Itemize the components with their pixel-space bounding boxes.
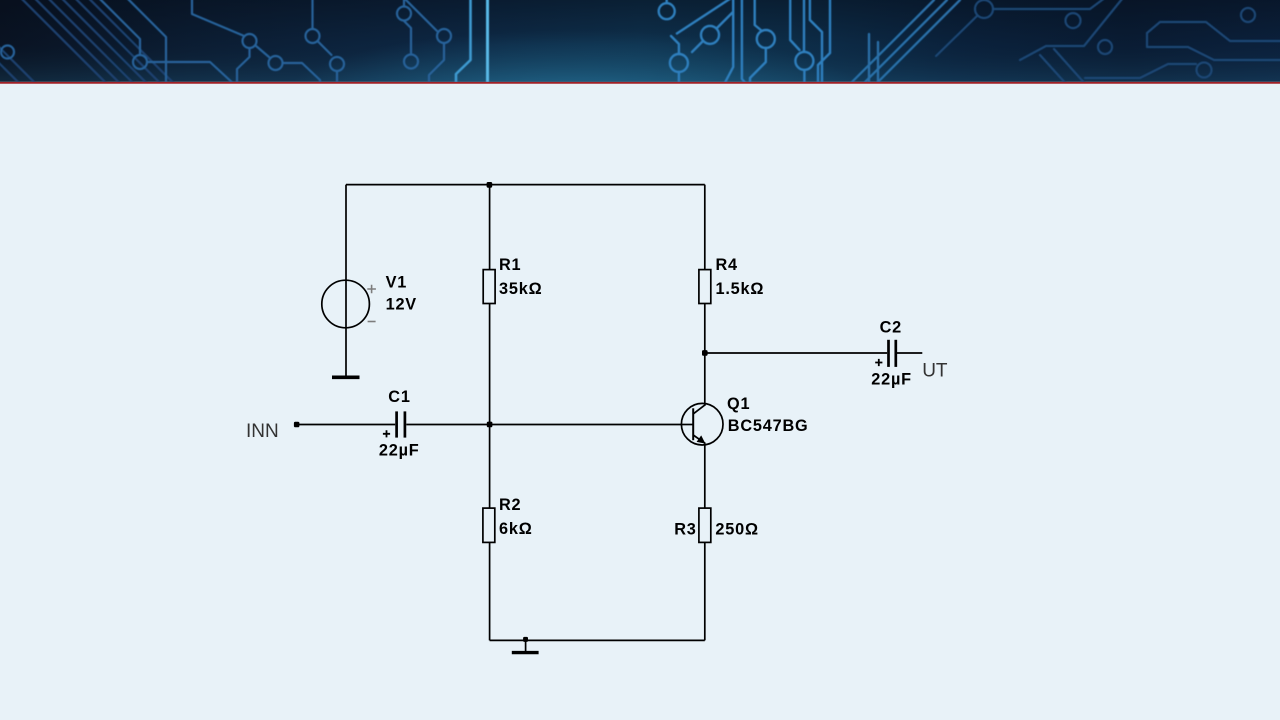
red divider line — [0, 82, 1280, 84]
label V1 value — [386, 274, 417, 314]
node: collector output junction — [702, 350, 708, 356]
svg-text:R1: R1 — [499, 256, 521, 274]
wire: right vertical (R4-Q1-R3 branch) — [704, 185, 706, 641]
svg-text:UT: UT — [922, 361, 948, 382]
capacitor C2 — [875, 340, 896, 367]
svg-text:INN: INN — [246, 421, 279, 442]
wire: middle vertical (R1-R2 branch) — [489, 185, 491, 641]
svg-text:R2: R2 — [499, 496, 521, 514]
svg-text:C2: C2 — [880, 319, 902, 337]
wire: C1 to base node — [406, 424, 489, 426]
banner background — [0, 0, 1280, 162]
ground (V1) — [332, 375, 360, 379]
wire: bottom rail — [490, 639, 705, 641]
node: INN terminal dot — [294, 422, 300, 428]
label R2 6kΩ — [499, 496, 533, 538]
svg-text:12V: 12V — [386, 296, 417, 314]
svg-text:V1: V1 — [386, 274, 408, 292]
svg-text:22µF: 22µF — [379, 441, 420, 459]
label R3 250Ω — [674, 520, 759, 538]
wire: C2 to UT — [897, 352, 922, 354]
label R4 1.5kΩ — [716, 256, 765, 298]
label C2 22µF — [871, 319, 912, 389]
net label INN — [246, 421, 279, 442]
svg-text:C1: C1 — [388, 388, 410, 406]
label C1 22µF — [379, 388, 420, 459]
label Q1 BC547BG — [727, 395, 809, 435]
wire: base node to Q1 base — [490, 424, 693, 426]
wire: input from INN to C1 — [297, 424, 396, 426]
svg-text:R3: R3 — [674, 520, 696, 538]
net label UT — [922, 361, 948, 382]
resistor R4 — [699, 270, 711, 304]
svg-text:Q1: Q1 — [727, 395, 750, 413]
svg-text:R4: R4 — [716, 256, 738, 274]
ground (bottom) — [512, 637, 539, 653]
node: base junction — [487, 422, 493, 428]
label R1 35kΩ — [499, 256, 542, 298]
wire: top rail — [346, 184, 705, 186]
banner circuit traces — [0, 0, 1280, 88]
svg-text:35kΩ: 35kΩ — [499, 280, 542, 298]
svg-text:6kΩ: 6kΩ — [499, 520, 533, 538]
capacitor C1 — [383, 411, 405, 437]
resistor R2 — [483, 508, 495, 542]
wire: collector node to C2 — [705, 352, 887, 354]
wire: V1 branch vertical — [345, 185, 347, 376]
resistor R1 — [483, 270, 495, 304]
resistor R3 — [699, 508, 711, 542]
svg-text:BC547BG: BC547BG — [728, 417, 809, 435]
transistor Q1 — [681, 403, 724, 445]
svg-text:22µF: 22µF — [871, 371, 912, 389]
svg-text:250Ω: 250Ω — [715, 520, 758, 538]
voltage source V1 — [322, 280, 376, 328]
svg-text:1.5kΩ: 1.5kΩ — [716, 280, 765, 298]
node: top junction — [487, 182, 493, 188]
